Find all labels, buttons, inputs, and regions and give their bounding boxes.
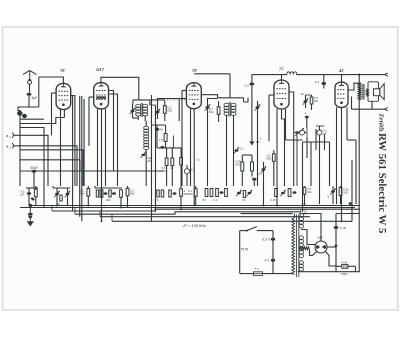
svg-text:T A: T A (255, 267, 259, 271)
svg-text:μF: μF (323, 132, 327, 136)
svg-text:MΩ: MΩ (314, 99, 318, 103)
output terminal arrow bottom (385, 108, 388, 111)
output terminal arrow top (385, 73, 388, 76)
resistor tone (339, 186, 349, 204)
wire right verticals (303, 129, 357, 221)
svg-text:6,3 V: 6,3 V (263, 238, 271, 242)
wire osc mid horizontal (157, 136, 181, 148)
osc coil L2 (144, 121, 149, 186)
resistor row V2 a (96, 190, 107, 198)
trimmer det (234, 147, 245, 154)
capacitor osc blob2 (160, 146, 164, 149)
padder capacitor (184, 165, 194, 186)
wire speaker bottom (352, 97, 385, 110)
resistor det2 (251, 158, 254, 177)
wire bus b6 (112, 220, 352, 222)
ground main (27, 204, 34, 227)
resistor row V2 b (106, 190, 122, 202)
wire pot net (295, 128, 308, 186)
svg-text:6A7: 6A7 (96, 67, 104, 72)
svg-text:MΩ: MΩ (162, 169, 166, 173)
wire V1 screen right (71, 96, 75, 186)
svg-text:MΩ: MΩ (168, 109, 173, 113)
trimmer C2 (65, 188, 71, 206)
wire bus joins (20, 171, 112, 221)
wire bus drop V5 (341, 75, 343, 82)
wire V3 pins down (191, 109, 195, 206)
trimmer C1 (54, 188, 60, 206)
wire V1 grid drop (38, 77, 40, 107)
svg-text:78: 78 (60, 68, 65, 73)
wire bus b5 (100, 216, 310, 218)
wire mains bottom (240, 273, 293, 276)
wire a1 (14, 135, 49, 186)
wire bus b4 (75, 212, 300, 214)
wire mains left (239, 231, 241, 274)
capacitor 6,3V (263, 238, 276, 242)
capacitor 50uF (31, 166, 38, 188)
junction dot bus (349, 202, 352, 205)
tube V2 6A7 (94, 67, 109, 109)
resistor mid c (180, 148, 183, 186)
antenna coupling coil (28, 80, 32, 92)
wire rect plate2 (301, 230, 315, 245)
junction dots row (56, 203, 342, 222)
capacitor 4 blob (305, 112, 309, 129)
wire antenna to coil bus (18, 107, 39, 111)
svg-text:0,5: 0,5 (155, 198, 159, 202)
wire V1V2 inter band (73, 95, 85, 221)
wire power bottom bus (298, 270, 360, 273)
wire input bus 1 (20, 123, 44, 125)
wire bus b1 (30, 205, 360, 207)
trimmer det2 (258, 162, 267, 206)
trimmer row B3 a (236, 190, 246, 202)
resistor V3 screen (209, 101, 220, 122)
resistor 0,1M mid (188, 186, 197, 206)
choke RFC (287, 72, 297, 75)
capacitor 5uF antenna (27, 93, 38, 100)
wire V3 grid vert (181, 91, 183, 187)
wire B+ top bus (194, 74, 230, 98)
IF transformer T2 (218, 98, 244, 186)
svg-text:78: 78 (192, 68, 197, 73)
svg-text:2,5: 2,5 (245, 84, 249, 88)
capacitor 8uF (334, 214, 347, 272)
wire input bus 3 (20, 150, 83, 186)
resistor det1 (236, 155, 244, 186)
svg-text:MΩ: MΩ (236, 163, 240, 167)
speaker (368, 82, 384, 102)
wire power top right (336, 213, 360, 215)
rectifier heater winding (300, 247, 310, 250)
trimmer screen 77 (301, 92, 309, 108)
wire V4 grid top (281, 75, 283, 80)
svg-text:50: 50 (243, 198, 247, 202)
grid cap triangle (249, 131, 261, 146)
wire long AVC bus (20, 170, 163, 172)
svg-text:50: 50 (304, 212, 308, 216)
capacitor osc blob (152, 125, 166, 148)
trimmer T2 right (255, 101, 261, 186)
svg-text:50: 50 (203, 198, 207, 202)
wire right horiz (286, 126, 357, 142)
svg-text:525: 525 (317, 236, 322, 240)
trimmer T1 right (155, 106, 161, 120)
svg-text:7 μ: 7 μ (196, 158, 200, 162)
svg-text:0,1: 0,1 (315, 80, 319, 84)
terminal a1 (6, 133, 14, 140)
wire V4 input vert (268, 95, 270, 141)
wire V4 input left (269, 94, 274, 96)
tube V5 42 (335, 68, 348, 108)
wire input bus 0 (20, 118, 44, 120)
svg-text:8 μF: 8 μF (340, 226, 346, 230)
resistor row B3 c (243, 191, 246, 198)
antenna coil L1 (17, 110, 27, 186)
svg-text:A5: A5 (160, 128, 164, 132)
resistor mid 0,5M (162, 148, 168, 186)
resistor 0,5M right (303, 186, 311, 204)
wire V2 grid top bus (101, 77, 139, 100)
IF transformer T1 (133, 100, 150, 121)
resistor 0,1M V2 (126, 186, 134, 208)
wire left cluster top (26, 187, 38, 189)
wire V1 grid top (39, 77, 64, 83)
svg-text:JF = 128 kHz: JF = 128 kHz (182, 223, 206, 228)
wire osc verticals (152, 95, 156, 221)
capacitor 0,1uF input (21, 188, 32, 206)
wire V2 pins down (98, 109, 106, 221)
wire input bus 4 (20, 160, 80, 171)
potentiometer vol (295, 128, 305, 136)
wire V5 plate to OT (348, 83, 361, 90)
trimmer T1 left (130, 104, 139, 118)
svg-text:Zenith: Zenith (378, 114, 385, 133)
resistor mid row b (169, 190, 177, 197)
wire V4 cathode jog (282, 119, 285, 186)
junction dot B+ speaker (358, 74, 360, 76)
wire transformer top (241, 213, 293, 215)
svg-text:1,5: 1,5 (159, 138, 163, 142)
svg-text:MΩ: MΩ (267, 157, 271, 161)
wire V3 grid left (182, 90, 186, 92)
wire V1 input left (52, 92, 57, 94)
wire V1 input vert (51, 93, 53, 135)
trimmer row B3 b (247, 190, 253, 197)
capacitor tone power (301, 204, 308, 216)
wire V5 pins down (337, 107, 348, 221)
svg-text:0,1: 0,1 (214, 198, 218, 202)
svg-text:1,2: 1,2 (240, 147, 244, 151)
trimmer osc (141, 151, 153, 162)
resistor R2 (57, 195, 63, 206)
svg-text:MΩ: MΩ (307, 190, 311, 194)
wire tube1 row joins (53, 186, 70, 188)
resistor R1 (34, 186, 37, 206)
capacitor 0,1 top (315, 75, 326, 89)
wire det joins (228, 155, 252, 158)
svg-text:μF: μF (21, 193, 25, 197)
terminal a2 (6, 143, 14, 150)
tube V3 78 (186, 68, 201, 109)
wire V3 plate right (201, 95, 217, 98)
wire row V2 bus (95, 186, 122, 208)
svg-text:A6: A6 (147, 159, 151, 163)
svg-text:75 W: 75 W (241, 247, 250, 251)
wire transformer sec top (301, 214, 321, 242)
wire antenna down (28, 96, 30, 107)
svg-text:MΩ: MΩ (188, 192, 193, 196)
trimmer T2 left (205, 99, 218, 187)
resistor mid row a (155, 190, 164, 202)
wire bus b2 (20, 207, 355, 209)
resistor row B3 b (214, 189, 228, 203)
wire T2 right net (244, 98, 249, 102)
resistor osc 1,5M (159, 125, 167, 148)
svg-text:30: 30 (301, 92, 305, 96)
capacitor pot right (317, 126, 328, 140)
wire V2 grid3 right (109, 94, 118, 186)
wire V3 input vert (178, 99, 180, 122)
output transformer (358, 83, 368, 100)
svg-text:MΩ: MΩ (344, 191, 348, 195)
wire OT return (358, 75, 360, 272)
trimmer tone (328, 186, 337, 204)
wire a2 (14, 146, 78, 186)
wire V2 grid2 right (109, 91, 114, 172)
svg-text:50μF: 50μF (31, 166, 38, 170)
power transformer (292, 213, 304, 277)
svg-text:RW 561 Selectric W 5: RW 561 Selectric W 5 (376, 133, 388, 233)
wire bus b3 (52, 209, 360, 211)
svg-text:250Ω: 250Ω (341, 272, 347, 276)
svg-text:77: 77 (279, 67, 284, 72)
svg-text:MΩ: MΩ (209, 110, 214, 114)
wire rect filament right (325, 252, 336, 267)
wire rect cathode out (327, 244, 337, 247)
svg-text:300: 300 (106, 198, 111, 202)
antenna (23, 70, 37, 81)
wire grid bus 77 (252, 74, 385, 76)
resistor det3 (267, 150, 276, 186)
wire V3 input left (179, 98, 186, 100)
capacitor grid 77 (245, 75, 255, 131)
field coil Feld (336, 261, 356, 277)
resistor R3 (80, 186, 90, 206)
wire V2 input left (89, 96, 94, 98)
wire T1 dashed link (167, 99, 186, 101)
fuse (254, 267, 263, 276)
tube V1 78 (56, 68, 71, 109)
wire T1 top right (150, 99, 165, 101)
capacitor 4V (265, 259, 276, 263)
resistor 0,1M T1 (163, 100, 172, 121)
rectifier tube 525 (315, 236, 327, 253)
svg-text:0,25: 0,25 (271, 198, 277, 202)
wire T1 sec out (150, 99, 179, 106)
capacitor det blob (252, 177, 257, 186)
svg-text:0,1: 0,1 (258, 172, 262, 176)
tube V4 77 (274, 67, 289, 110)
wire V4 pins down (277, 109, 286, 206)
svg-text:42: 42 (338, 68, 344, 73)
resistor 2M (180, 186, 189, 209)
svg-text:5μF: 5μF (32, 96, 38, 100)
wire V2 input vert (88, 97, 90, 146)
resistor mid 40 (170, 148, 174, 186)
wire V4 plate right (289, 92, 294, 186)
resistor row B3 d (271, 189, 297, 203)
svg-text:MΩ: MΩ (130, 192, 135, 196)
wire heater tap line (272, 231, 274, 274)
mains switch (240, 227, 273, 232)
resistor row B3 a (203, 189, 213, 203)
capacitor diag input (30, 197, 35, 201)
wire V1 pins down (44, 109, 64, 186)
resistor screen 77 (306, 95, 319, 110)
svg-text:Feld: Feld (342, 261, 348, 265)
wire input bus 2 (20, 128, 44, 208)
wire rect filament left (310, 250, 317, 256)
